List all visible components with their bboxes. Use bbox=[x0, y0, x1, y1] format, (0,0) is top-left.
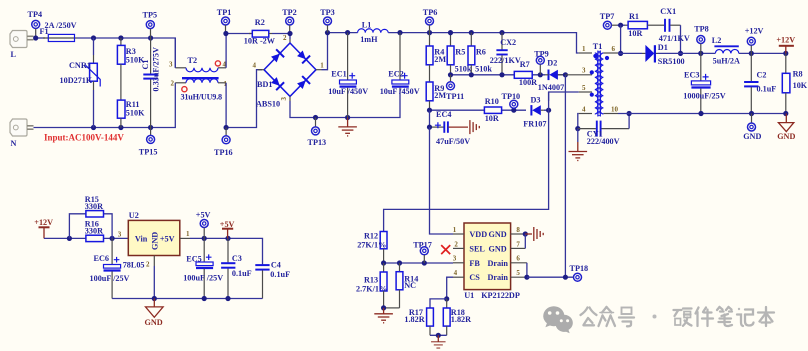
svg-text:1: 1 bbox=[453, 226, 457, 234]
svg-text:2: 2 bbox=[171, 80, 175, 88]
junction bbox=[783, 51, 788, 56]
wire D3 to R12 vertical bbox=[384, 92, 549, 232]
capacitor EC3 bbox=[691, 53, 710, 113]
svg-text:TP13: TP13 bbox=[308, 138, 327, 147]
T1 polarity dot pin1 bbox=[593, 54, 597, 58]
wire top bus bbox=[77, 38, 175, 68]
svg-text:510k: 510k bbox=[475, 65, 492, 74]
svg-text:KP2122DP: KP2122DP bbox=[481, 291, 520, 300]
junction bbox=[33, 35, 38, 40]
svg-text:R7: R7 bbox=[520, 60, 530, 69]
svg-text:GND: GND bbox=[145, 318, 163, 327]
svg-text:L2: L2 bbox=[712, 36, 722, 45]
power GND red triangle bbox=[777, 114, 795, 142]
svg-text:TP6: TP6 bbox=[423, 8, 438, 17]
wire pin4 down bbox=[577, 114, 580, 129]
junction bbox=[202, 236, 207, 241]
junction bbox=[783, 111, 788, 116]
wire R2 to bridge bbox=[272, 34, 290, 40]
svg-text:1: 1 bbox=[320, 62, 324, 70]
junction bbox=[511, 108, 516, 113]
ground at bridge bbox=[338, 118, 357, 136]
svg-text:510k: 510k bbox=[455, 65, 472, 74]
junction bbox=[563, 275, 568, 280]
junction bbox=[152, 296, 157, 301]
wire pin6 to pin5 bbox=[526, 263, 528, 277]
junction bbox=[575, 126, 580, 131]
svg-text:100uF /25V: 100uF /25V bbox=[90, 274, 130, 283]
svg-text:L: L bbox=[11, 50, 17, 59]
test point TP6 bbox=[423, 8, 438, 33]
svg-text:0.1uF: 0.1uF bbox=[757, 84, 777, 93]
junction bbox=[381, 260, 386, 265]
svg-text:TP18: TP18 bbox=[570, 264, 589, 273]
svg-text:+12V: +12V bbox=[745, 26, 764, 35]
svg-text:EC2: EC2 bbox=[388, 69, 403, 78]
junction bbox=[618, 51, 623, 56]
junction bbox=[749, 111, 754, 116]
svg-text:1: 1 bbox=[582, 45, 586, 53]
junction bbox=[618, 23, 623, 28]
svg-text:Vin: Vin bbox=[135, 234, 148, 243]
wire bridge bottom bbox=[290, 89, 400, 118]
bridge rectifier BD1 bbox=[258, 39, 322, 101]
svg-text:5uH/2A: 5uH/2A bbox=[713, 57, 740, 66]
resistor R9 bbox=[426, 82, 433, 110]
svg-text:EC6: EC6 bbox=[94, 254, 109, 263]
svg-text:TP16: TP16 bbox=[214, 148, 233, 157]
ground at R13 bbox=[374, 308, 393, 323]
T1 polarity dot pin3 bbox=[590, 70, 594, 74]
svg-text:GND: GND bbox=[489, 244, 507, 253]
junction bbox=[148, 125, 153, 130]
svg-text:+12V: +12V bbox=[34, 218, 53, 227]
junction bbox=[627, 111, 632, 116]
svg-text:10uF /450V: 10uF /450V bbox=[380, 87, 420, 96]
svg-text:EC1: EC1 bbox=[331, 69, 346, 78]
resistor R2 bbox=[249, 30, 272, 37]
transformer T2 bbox=[175, 56, 226, 83]
power +5V testpoint bbox=[196, 211, 211, 239]
svg-text:R10: R10 bbox=[485, 97, 499, 106]
junction bbox=[91, 35, 96, 40]
svg-text:+5V: +5V bbox=[160, 234, 175, 243]
svg-text:10: 10 bbox=[611, 106, 619, 114]
resistor R17 bbox=[427, 308, 434, 335]
wire snubber row bbox=[451, 74, 566, 76]
svg-text:2.7K/1%: 2.7K/1% bbox=[356, 285, 387, 294]
svg-text:C1: C1 bbox=[141, 59, 150, 69]
connector N bbox=[10, 119, 34, 136]
test point TP15 bbox=[139, 128, 158, 157]
resistor R13 bbox=[380, 263, 387, 308]
svg-text:10R: 10R bbox=[485, 114, 499, 123]
power +5V red bbox=[220, 220, 235, 238]
svg-text:Drain: Drain bbox=[488, 273, 509, 282]
U1 pin 6 bbox=[511, 255, 527, 263]
resistor R10 bbox=[484, 107, 501, 113]
svg-text:78L05: 78L05 bbox=[123, 261, 145, 270]
svg-text:U2: U2 bbox=[129, 211, 139, 220]
svg-text:EC5: EC5 bbox=[186, 254, 201, 263]
U1 pin 2 bbox=[453, 240, 464, 248]
junction bbox=[427, 108, 432, 113]
ground at pin 8 bbox=[525, 227, 543, 241]
junction bbox=[224, 125, 229, 130]
junction bbox=[118, 35, 123, 40]
svg-text:R6: R6 bbox=[476, 47, 486, 56]
svg-text:3: 3 bbox=[118, 231, 122, 239]
svg-text:27K/1%: 27K/1% bbox=[357, 241, 386, 250]
svg-text:2: 2 bbox=[283, 34, 287, 42]
svg-text:R1: R1 bbox=[629, 12, 639, 21]
svg-text:4: 4 bbox=[253, 61, 257, 69]
wire CS to R17 bbox=[430, 299, 447, 308]
wire TP7 down bbox=[620, 25, 622, 53]
T1 polarity dot pin5 bbox=[590, 93, 594, 97]
svg-text:R2: R2 bbox=[255, 18, 265, 27]
wire VDD vertical bbox=[430, 127, 454, 234]
svg-text:EC4: EC4 bbox=[436, 110, 451, 119]
watermark dot bbox=[653, 315, 657, 319]
junction bbox=[448, 72, 453, 77]
svg-text:GND: GND bbox=[489, 230, 507, 239]
svg-text:6: 6 bbox=[612, 45, 616, 53]
junction bbox=[202, 296, 207, 301]
svg-text:GND: GND bbox=[777, 132, 795, 141]
svg-text:U1: U1 bbox=[464, 291, 474, 300]
junction bbox=[345, 115, 350, 120]
svg-text:1.82R: 1.82R bbox=[404, 315, 424, 324]
wire CS bbox=[447, 277, 453, 299]
U1 pin 7 bbox=[511, 240, 526, 248]
svg-text:330R: 330R bbox=[85, 202, 103, 211]
resistor R11 bbox=[117, 100, 125, 127]
svg-text:4: 4 bbox=[582, 106, 586, 114]
wire 12V row bbox=[44, 237, 128, 239]
junction bbox=[91, 125, 96, 130]
svg-text:3: 3 bbox=[582, 67, 586, 75]
svg-text:Drain: Drain bbox=[488, 259, 509, 268]
wire FB row bbox=[384, 262, 453, 264]
svg-text:1mH: 1mH bbox=[360, 35, 378, 44]
junction bbox=[499, 72, 504, 77]
resistor R18 bbox=[443, 299, 450, 335]
svg-text:C4: C4 bbox=[271, 260, 281, 269]
junction bbox=[698, 51, 703, 56]
svg-text:2: 2 bbox=[146, 261, 150, 269]
svg-text:CX2: CX2 bbox=[500, 38, 516, 47]
junction bbox=[427, 125, 432, 130]
U1 pin 5 bbox=[511, 269, 527, 277]
wire aux row bbox=[430, 109, 549, 111]
power GND triangle U2 bbox=[145, 299, 164, 327]
svg-text:10D271K: 10D271K bbox=[60, 76, 93, 85]
junction bbox=[345, 30, 350, 35]
junction bbox=[325, 30, 330, 35]
svg-text:4: 4 bbox=[454, 269, 458, 277]
svg-text:2M: 2M bbox=[434, 91, 446, 100]
watermark wechat icon bbox=[543, 306, 573, 333]
junction bbox=[678, 51, 683, 56]
U1 pin 1 bbox=[453, 226, 464, 234]
svg-text:D2: D2 bbox=[547, 59, 557, 68]
wire bridge out right bbox=[322, 33, 328, 70]
junction bbox=[436, 333, 441, 338]
junction bbox=[225, 296, 230, 301]
junction bbox=[422, 260, 427, 265]
svg-text:330R: 330R bbox=[85, 226, 103, 235]
resistor R6 bbox=[468, 33, 475, 75]
power +12V red bbox=[776, 35, 795, 53]
inductor L2 bbox=[714, 46, 738, 53]
svg-text:TP1: TP1 bbox=[217, 8, 232, 17]
test point TP2 bbox=[282, 8, 297, 31]
capacitor EC1 bbox=[340, 33, 357, 118]
svg-text:0.1uF: 0.1uF bbox=[270, 270, 290, 279]
svg-text:6: 6 bbox=[516, 255, 520, 263]
svg-text:CS: CS bbox=[469, 273, 480, 282]
svg-text:3: 3 bbox=[453, 255, 457, 263]
svg-text:1.82R: 1.82R bbox=[451, 315, 471, 324]
junction bbox=[546, 108, 551, 113]
resistor R7 bbox=[514, 71, 532, 78]
wire pin8 to pin7 bbox=[524, 234, 526, 248]
svg-text:R5: R5 bbox=[455, 47, 465, 56]
U1 pin 8 bbox=[511, 226, 526, 234]
svg-text:TP4: TP4 bbox=[28, 10, 43, 19]
wire T2 left top bbox=[174, 38, 176, 68]
resistor R14 bbox=[384, 263, 403, 308]
svg-text:2A /250V: 2A /250V bbox=[45, 21, 77, 30]
resistor R12 bbox=[380, 232, 387, 264]
test point TP3 bbox=[320, 8, 335, 33]
test point TP7 bbox=[600, 12, 617, 29]
svg-text:3: 3 bbox=[280, 97, 288, 101]
ground at EC4 bbox=[449, 120, 480, 134]
svg-text:10uF /450V: 10uF /450V bbox=[328, 87, 368, 96]
connector L bbox=[10, 31, 34, 48]
capacitor C4 bbox=[255, 264, 269, 298]
svg-text:L1: L1 bbox=[362, 21, 372, 30]
test point TP5 bbox=[143, 10, 158, 38]
wire CX1 down bbox=[680, 25, 682, 53]
junction bbox=[427, 30, 432, 35]
junction bbox=[397, 260, 402, 265]
svg-text:TP10: TP10 bbox=[502, 92, 521, 101]
wire N row bbox=[34, 83, 176, 128]
svg-text:31uH/UU9.8: 31uH/UU9.8 bbox=[181, 92, 223, 101]
svg-text:BD1: BD1 bbox=[257, 80, 272, 89]
resistor R16 bbox=[86, 235, 104, 241]
resistor R1 bbox=[625, 21, 651, 28]
junction bbox=[523, 231, 528, 236]
svg-text:2: 2 bbox=[454, 240, 458, 248]
junction bbox=[381, 305, 386, 310]
resistor R3 bbox=[117, 38, 125, 100]
junction bbox=[698, 111, 703, 116]
svg-text:8: 8 bbox=[516, 226, 520, 234]
svg-text:T1: T1 bbox=[593, 42, 603, 51]
capacitor CX2 bbox=[496, 33, 507, 75]
svg-text:5: 5 bbox=[516, 269, 520, 277]
inductor L1 bbox=[358, 29, 389, 33]
test point TP11 bbox=[446, 75, 464, 101]
svg-text:TP15: TP15 bbox=[139, 147, 158, 156]
wire dc bus top bbox=[328, 33, 579, 53]
power +12V red bottom bbox=[34, 218, 53, 238]
svg-text:510K: 510K bbox=[126, 108, 145, 117]
svg-text:SEL: SEL bbox=[469, 244, 485, 253]
junction bbox=[118, 125, 123, 130]
svg-text:5: 5 bbox=[582, 84, 586, 92]
wire L row bbox=[34, 37, 46, 39]
test point TP17 bbox=[413, 241, 432, 263]
junction bbox=[499, 30, 504, 35]
T1 polarity dot pin6 bbox=[605, 56, 609, 60]
capacitor CX1 bbox=[651, 19, 681, 32]
svg-text:FR107: FR107 bbox=[523, 119, 546, 128]
svg-text:R12: R12 bbox=[364, 232, 378, 241]
wire drain vertical bbox=[564, 75, 566, 277]
svg-text:GND: GND bbox=[743, 132, 761, 141]
svg-text:+12V: +12V bbox=[776, 35, 795, 44]
junction bbox=[110, 236, 115, 241]
junction bbox=[563, 72, 568, 77]
wire 5V row bbox=[190, 238, 263, 264]
ground testpoint GND bbox=[743, 114, 761, 142]
chip U1 KP2122DP bbox=[464, 223, 511, 290]
varistor CNR1 bbox=[85, 38, 100, 128]
svg-text:100R: 100R bbox=[519, 78, 537, 87]
svg-text:100uF /25V: 100uF /25V bbox=[183, 273, 223, 282]
svg-text:VDD: VDD bbox=[469, 230, 487, 239]
capacitor C3 bbox=[221, 238, 235, 298]
wire pin6 row bbox=[618, 52, 712, 54]
U2 pin 2 stub bbox=[146, 256, 154, 299]
test point TP18 bbox=[570, 264, 589, 281]
wire output bus bbox=[618, 113, 786, 115]
U1 pin 3 bbox=[453, 255, 464, 263]
svg-text:D1: D1 bbox=[658, 43, 668, 52]
svg-text:FB: FB bbox=[469, 259, 480, 268]
test point TP9 bbox=[534, 49, 549, 74]
test point TP13 bbox=[308, 118, 327, 148]
transformer T1 bbox=[565, 42, 618, 117]
junction bbox=[225, 236, 230, 241]
no connect X on pin 2 bbox=[441, 245, 450, 254]
test point TP8 bbox=[694, 25, 709, 54]
wire L2 right bbox=[712, 52, 786, 54]
svg-text:47uF/50V: 47uF/50V bbox=[436, 137, 470, 146]
svg-text:1000uF/25V: 1000uF/25V bbox=[683, 91, 725, 100]
fuse F1 bbox=[43, 34, 77, 41]
diode D2 bbox=[545, 70, 565, 81]
svg-text:1: 1 bbox=[186, 230, 190, 238]
resistor R4 bbox=[426, 33, 433, 82]
junction bbox=[223, 31, 228, 36]
junction bbox=[397, 30, 402, 35]
svg-text:TP7: TP7 bbox=[600, 12, 615, 21]
svg-text:TP2: TP2 bbox=[282, 8, 297, 17]
svg-text:1N4007: 1N4007 bbox=[538, 83, 564, 92]
svg-text:10R: 10R bbox=[628, 29, 642, 38]
svg-text:TP8: TP8 bbox=[694, 25, 709, 34]
wire R15 branch bbox=[69, 214, 112, 239]
wire drain row bbox=[527, 276, 573, 278]
diode D3 bbox=[531, 105, 544, 115]
svg-text:3: 3 bbox=[169, 61, 173, 69]
capacitor EC6 bbox=[104, 238, 121, 298]
ground at CY1 bbox=[569, 129, 588, 161]
svg-text:R13: R13 bbox=[364, 275, 378, 284]
junction bbox=[469, 72, 474, 77]
svg-text:+5V: +5V bbox=[220, 220, 235, 229]
svg-text:TP3: TP3 bbox=[320, 8, 335, 17]
svg-text:222/400V: 222/400V bbox=[587, 137, 620, 146]
junction bbox=[444, 296, 449, 301]
wire pin5 to aux bbox=[549, 92, 579, 101]
svg-text:222/1KV: 222/1KV bbox=[490, 56, 521, 65]
svg-text:10R -2W: 10R -2W bbox=[244, 36, 276, 45]
test point TP16 bbox=[214, 128, 233, 157]
svg-text:R8: R8 bbox=[793, 69, 803, 78]
U1 pin 4 bbox=[453, 269, 464, 277]
svg-text:C2: C2 bbox=[757, 70, 767, 79]
svg-text:471/1KV: 471/1KV bbox=[659, 34, 690, 43]
svg-text:C3: C3 bbox=[232, 254, 242, 263]
svg-text:GND: GND bbox=[150, 232, 159, 250]
svg-text:7: 7 bbox=[516, 240, 520, 248]
junction bbox=[148, 35, 153, 40]
test point TP1 bbox=[217, 8, 232, 34]
wire 5v bottom bus bbox=[112, 298, 262, 300]
capacitor CY1 bbox=[578, 114, 629, 137]
svg-text:+5V: +5V bbox=[196, 211, 211, 220]
svg-text:TP11: TP11 bbox=[446, 92, 464, 101]
svg-text:EC3: EC3 bbox=[684, 70, 699, 79]
svg-text:10K: 10K bbox=[793, 81, 808, 90]
test point TP4 bbox=[28, 10, 43, 38]
resistor R15 bbox=[86, 211, 104, 217]
capacitor C1 bbox=[143, 38, 158, 128]
svg-text:TP5: TP5 bbox=[143, 10, 158, 19]
T2 polarity dot bottom bbox=[182, 87, 187, 92]
svg-text:NC: NC bbox=[404, 281, 416, 290]
capacitor EC4 bbox=[430, 110, 448, 133]
svg-text:Input:AC100V-144V: Input:AC100V-144V bbox=[44, 133, 124, 143]
regulator U2 bbox=[128, 220, 180, 255]
junction bbox=[67, 236, 72, 241]
junction bbox=[287, 31, 292, 36]
wire TP7 row bbox=[617, 24, 625, 26]
svg-text:SR5100: SR5100 bbox=[658, 57, 685, 66]
svg-text:0.1uF: 0.1uF bbox=[232, 269, 252, 278]
junction bbox=[448, 30, 453, 35]
svg-text:T2: T2 bbox=[188, 56, 198, 65]
svg-text:2M: 2M bbox=[434, 55, 446, 64]
resistor R5 bbox=[447, 33, 454, 75]
svg-text:D3: D3 bbox=[531, 96, 541, 105]
svg-text:TP17: TP17 bbox=[413, 241, 432, 250]
svg-text:0.33uF/275V: 0.33uF/275V bbox=[152, 47, 161, 91]
U2 pin 1 stub bbox=[180, 230, 190, 238]
power +12V testpoint bbox=[745, 26, 764, 53]
svg-text:CX1: CX1 bbox=[660, 7, 676, 16]
capacitor C2 bbox=[744, 53, 758, 113]
junction bbox=[749, 51, 754, 56]
capacitor EC5 bbox=[196, 238, 213, 298]
